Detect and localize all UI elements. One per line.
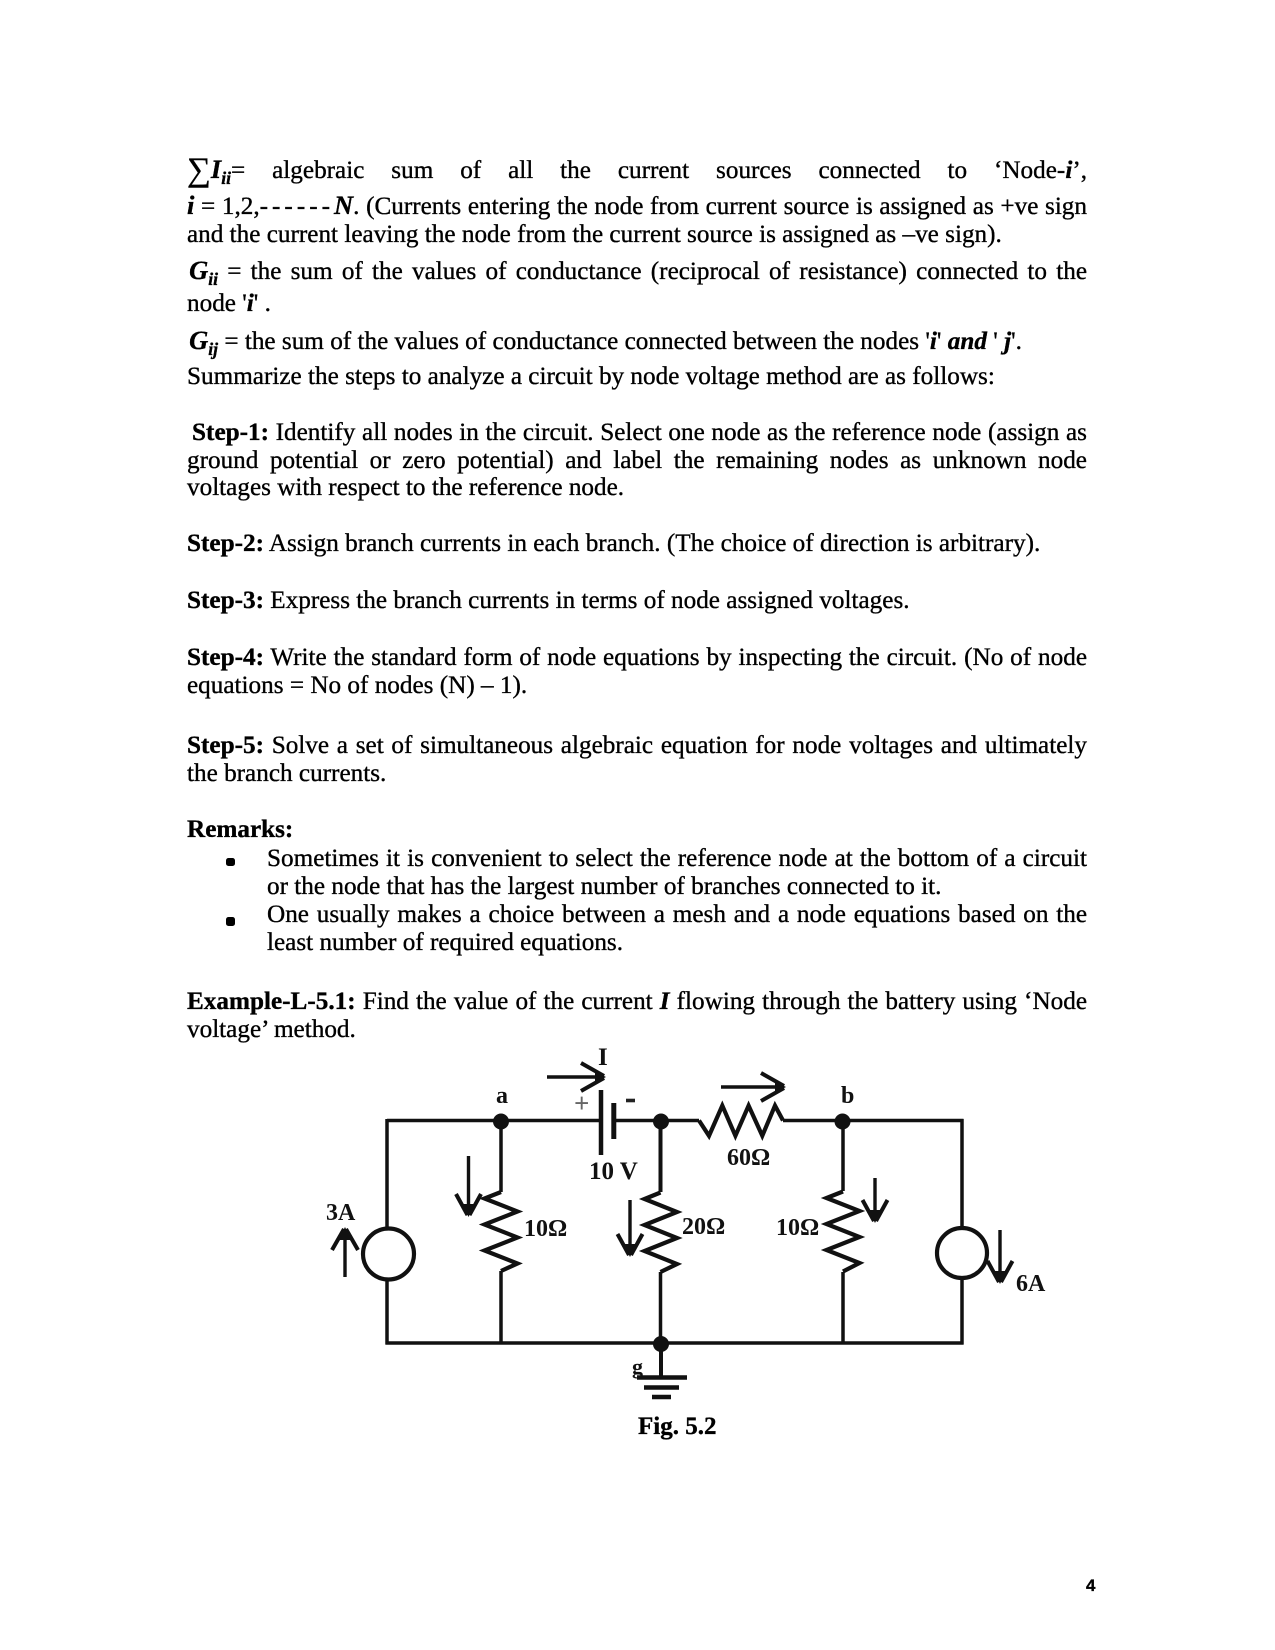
wire top-left: node a to left corner (387, 1119, 601, 1123)
Example (187, 988, 1087, 1016)
3A source arrow (upward) (332, 1227, 358, 1277)
line 5 (187, 290, 271, 318)
6A source arrow (downward) (988, 1230, 1013, 1284)
svg-text:10Ω: 10Ω (524, 1216, 567, 1242)
svg-text:b: b (841, 1083, 854, 1109)
ground symbol (637, 1378, 687, 1398)
branch arrow at R2 (downward) (618, 1200, 643, 1257)
current arrow I (top, rightward) (547, 1063, 606, 1091)
svg-text:10Ω: 10Ω (776, 1215, 819, 1241)
branch arrow at R1 (downward) (456, 1156, 481, 1217)
line 3 (187, 221, 1002, 249)
wire R3 to bottom (841, 1272, 845, 1343)
Step-1 (187, 419, 1087, 447)
wire left edge upper (385, 1119, 389, 1229)
Step-5 (187, 732, 1087, 760)
svg-text:20Ω: 20Ω (682, 1214, 725, 1240)
wire R1 to bottom (499, 1271, 503, 1343)
label - (battery) (626, 1099, 635, 1103)
node g junction dot (653, 1336, 669, 1352)
line 2 (187, 191, 1087, 221)
node b junction dot (835, 1114, 851, 1130)
svg-text:60Ω: 60Ω (727, 1145, 770, 1171)
svg-text:10 V: 10 V (589, 1158, 638, 1185)
wire bottom (386, 1341, 964, 1345)
resistor R4 60ohm (horizontal) (699, 1106, 783, 1136)
wire battery to junction node (614, 1119, 700, 1123)
wire left edge lower (385, 1279, 389, 1345)
svg-text:3A: 3A (326, 1200, 356, 1226)
current source I1 3A circle (363, 1229, 414, 1280)
branch arrow at R3 (downward) (863, 1178, 888, 1223)
page number (1086, 1572, 1095, 1600)
circuit figure (0, 1040, 1275, 1600)
line 4 (187, 256, 1087, 293)
svg-text:a: a (496, 1083, 508, 1109)
Fig caption (638, 1413, 716, 1441)
line 1 (187, 155, 1087, 192)
Step-2 (187, 530, 1040, 558)
svg-text:I: I (598, 1044, 608, 1071)
current source I2 6A circle (937, 1228, 987, 1278)
current arrow above 60ohm (rightward) (721, 1073, 786, 1101)
line 7 (187, 363, 995, 391)
resistor R2 20ohm (middle vertical) (645, 1193, 678, 1273)
resistor R1 10ohm (left vertical) (485, 1192, 518, 1271)
line 6 (187, 326, 1022, 363)
wire ground stub (659, 1343, 663, 1377)
wire node b down to R3 (841, 1121, 845, 1191)
battery V1 short plate (-) (611, 1103, 616, 1139)
svg-text:6A: 6A (1016, 1271, 1046, 1297)
node a junction dot (493, 1114, 509, 1130)
svg-text:+: + (574, 1088, 589, 1118)
Remarks (187, 816, 293, 844)
wire node a down to R1 (499, 1121, 503, 1192)
Step-4 (187, 644, 1087, 672)
resistor R3 10ohm (right vertical) (827, 1192, 860, 1272)
wire R2 to bottom (659, 1272, 663, 1343)
wire junction down to R2 (659, 1121, 663, 1192)
wire 60ohm to right corner (783, 1119, 964, 1123)
Step-3 (187, 587, 910, 615)
wire right edge upper (960, 1119, 964, 1228)
battery V1 long plate (+) (599, 1090, 604, 1155)
node after battery junction dot (653, 1114, 669, 1130)
svg-text:g: g (632, 1354, 643, 1379)
wire right edge lower (960, 1278, 964, 1345)
